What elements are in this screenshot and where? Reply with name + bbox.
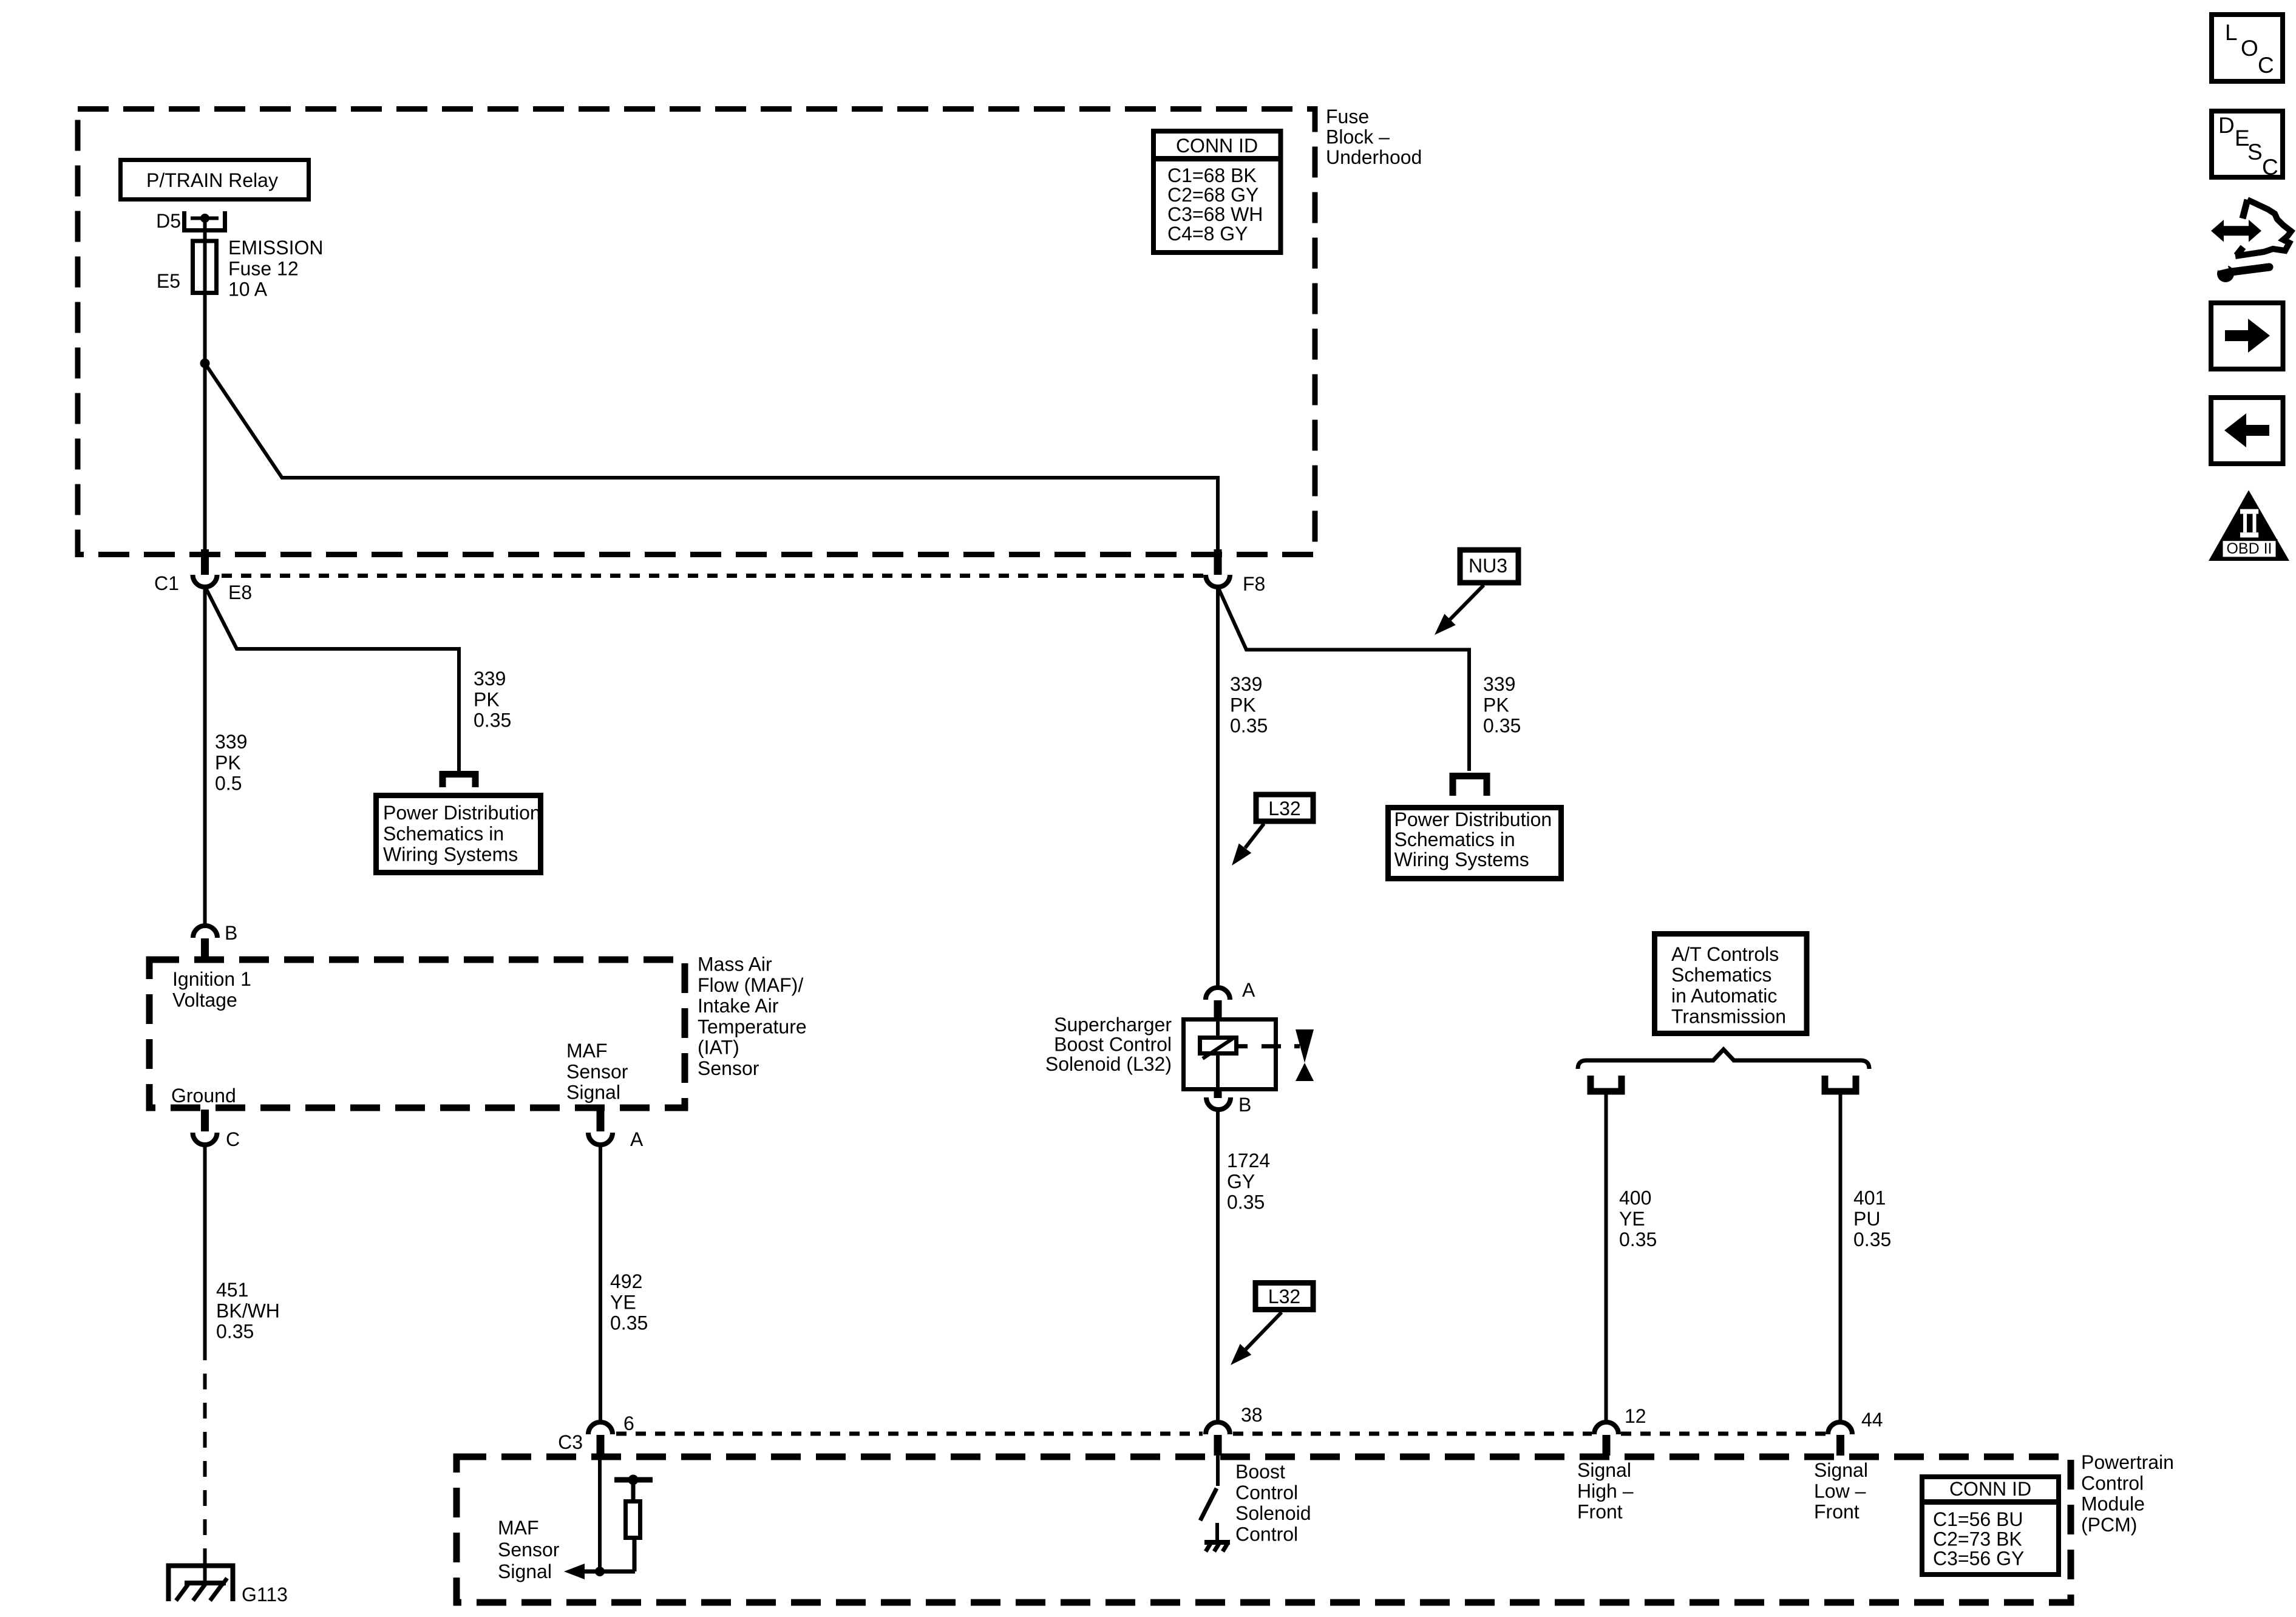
svg-text:Supercharger: Supercharger (1054, 1014, 1172, 1036)
label Signal Low - Front (1814, 1459, 1868, 1523)
L32 option box (upper) (1256, 795, 1313, 821)
wire label 492 YE 0.35 (610, 1270, 648, 1334)
svg-text:Boost Control: Boost Control (1054, 1033, 1172, 1055)
svg-text:C: C (2262, 155, 2278, 180)
svg-text:S: S (2247, 140, 2263, 164)
svg-text:44: 44 (1861, 1409, 1883, 1431)
label A (MAF signal) (630, 1128, 644, 1150)
label 44 (1861, 1409, 1883, 1431)
svg-text:Underhood: Underhood (1326, 146, 1422, 168)
label Fuse Block - Underhood (1326, 106, 1422, 168)
svg-text:38: 38 (1241, 1404, 1263, 1426)
svg-text:400: 400 (1619, 1187, 1651, 1209)
label Ground (171, 1085, 236, 1107)
dotted connector line (fuse block) (222, 574, 1204, 578)
hand and wrench icon (2211, 200, 2291, 282)
svg-text:C1=56 BU: C1=56 BU (1933, 1508, 2023, 1530)
wire fuse to C1 (203, 295, 207, 551)
PCM dashed box (457, 1457, 2071, 1602)
svg-text:E8: E8 (228, 581, 252, 603)
svg-text:L: L (2225, 20, 2238, 45)
A/T Controls reference box (1655, 934, 1807, 1034)
label 6 (623, 1412, 634, 1434)
wire 44 (1839, 1094, 1843, 1422)
svg-text:in Automatic: in Automatic (1671, 985, 1777, 1006)
svg-text:Schematics in: Schematics in (383, 822, 504, 844)
svg-text:B: B (225, 922, 237, 944)
pin label E5 (157, 270, 180, 292)
svg-text:Fuse: Fuse (1326, 106, 1369, 127)
svg-text:A: A (630, 1128, 644, 1150)
label Ignition 1 Voltage (172, 968, 251, 1011)
label Powertrain Control Module (PCM) (2081, 1451, 2174, 1536)
svg-text:Low –: Low – (1814, 1480, 1866, 1502)
back arrow icon box (2211, 398, 2283, 464)
connector A (MAF signal) (588, 1110, 613, 1145)
label 12 (1625, 1405, 1646, 1427)
svg-text:O: O (2241, 36, 2258, 61)
svg-text:YE: YE (610, 1291, 636, 1313)
svg-text:PK: PK (1483, 694, 1509, 716)
svg-text:G113: G113 (242, 1584, 288, 1605)
svg-text:A/T Controls: A/T Controls (1671, 943, 1779, 965)
svg-text:L32: L32 (1268, 798, 1300, 819)
svg-text:B: B (1238, 1094, 1251, 1116)
svg-text:OBD II: OBD II (2226, 540, 2272, 557)
forward arrow icon box (2211, 303, 2283, 369)
svg-text:339: 339 (1230, 673, 1262, 695)
Power Distribution reference box (left) (376, 796, 541, 873)
svg-text:Power Distribution: Power Distribution (383, 802, 541, 824)
connector A (solenoid) (1206, 988, 1230, 1018)
svg-text:0.35: 0.35 (1853, 1229, 1891, 1250)
wire relay to fuse (203, 219, 207, 239)
connector B (solenoid) (1206, 1090, 1231, 1110)
CONN ID table (fuse block) (1151, 131, 1283, 253)
svg-text:E5: E5 (157, 270, 180, 292)
wire E8 branch to power distribution (206, 588, 459, 771)
pin 38 internal switch to ground (1200, 1456, 1218, 1541)
label C (226, 1128, 240, 1150)
svg-text:C1: C1 (154, 572, 179, 594)
svg-text:YE: YE (1619, 1208, 1645, 1230)
label G113 (242, 1584, 288, 1605)
wire label 339 PK 0.35 (F8 wire) (1230, 673, 1268, 737)
svg-text:Solenoid: Solenoid (1235, 1502, 1311, 1524)
L32 arrow (upper) (1232, 824, 1264, 866)
svg-text:Wiring Systems: Wiring Systems (383, 844, 518, 866)
svg-text:A: A (1242, 979, 1255, 1001)
svg-text:0.35: 0.35 (1230, 715, 1268, 737)
svg-text:451: 451 (216, 1279, 248, 1301)
svg-text:C1=68 BK: C1=68 BK (1167, 164, 1257, 186)
svg-text:CONN ID: CONN ID (1949, 1478, 2031, 1500)
svg-text:Wiring Systems: Wiring Systems (1394, 849, 1529, 870)
LOC icon box (2212, 15, 2283, 81)
svg-text:D: D (2218, 113, 2235, 138)
svg-text:D5: D5 (156, 210, 181, 232)
svg-text:0.35: 0.35 (474, 710, 511, 731)
svg-text:Signal: Signal (1577, 1459, 1631, 1481)
off-page bracket (A/T left) (1591, 1076, 1622, 1091)
svg-text:Signal: Signal (1814, 1459, 1868, 1481)
svg-text:Module: Module (2081, 1493, 2145, 1515)
L32 option box (lower) (1255, 1283, 1313, 1310)
label C1 (154, 572, 179, 594)
wire F8 branch to power distribution right (1218, 588, 1469, 771)
wire B to 38 (1216, 1110, 1220, 1422)
svg-text:Mass Air: Mass Air (698, 954, 772, 975)
svg-text:CONN ID: CONN ID (1176, 135, 1258, 157)
valve symbol (1296, 1029, 1314, 1081)
svg-text:Powertrain: Powertrain (2081, 1451, 2174, 1473)
off-page bracket (power distribution right) (1453, 776, 1487, 796)
wire C ground dashed (203, 1344, 207, 1550)
wire label 401 PU 0.35 (1853, 1187, 1891, 1251)
label Signal High - Front (1577, 1459, 1634, 1523)
svg-text:Schematics: Schematics (1671, 964, 1771, 986)
connector pin 12 (1594, 1422, 1618, 1456)
svg-text:0.35: 0.35 (1483, 715, 1521, 737)
svg-text:401: 401 (1853, 1187, 1886, 1209)
svg-text:Sensor: Sensor (498, 1539, 560, 1561)
label 38 (1241, 1404, 1263, 1426)
connector C1 (193, 549, 217, 587)
svg-text:F8: F8 (1243, 573, 1265, 595)
svg-text:0.5: 0.5 (215, 773, 242, 795)
off-page bracket (A/T right) (1825, 1076, 1856, 1091)
svg-text:1724: 1724 (1227, 1150, 1270, 1171)
svg-text:Solenoid (L32): Solenoid (L32) (1045, 1053, 1172, 1075)
connector B (ignition box) (193, 926, 217, 959)
svg-text:Intake Air: Intake Air (698, 995, 779, 1017)
supercharger boost control solenoid L32 (1184, 1017, 1300, 1091)
wire junction to F8 (205, 364, 1218, 552)
svg-text:MAF: MAF (566, 1040, 608, 1062)
svg-text:0.35: 0.35 (1619, 1229, 1657, 1250)
svg-text:339: 339 (1483, 673, 1515, 695)
svg-text:(PCM): (PCM) (2081, 1514, 2137, 1536)
wire A to pin 6 (599, 1144, 602, 1422)
label B (ignition box) (225, 922, 237, 944)
NU3 arrow (1435, 585, 1484, 635)
svg-text:P/TRAIN Relay: P/TRAIN Relay (146, 169, 278, 191)
wire label 451 BK/WH 0.35 (216, 1279, 280, 1343)
svg-text:Fuse 12: Fuse 12 (228, 257, 299, 279)
OBD II icon (2209, 490, 2289, 561)
wire label 339 PK 0.5 (215, 731, 247, 795)
wire C1 to B (203, 586, 207, 925)
svg-text:C2=68 GY: C2=68 GY (1167, 184, 1258, 206)
svg-text:Schematics in: Schematics in (1394, 829, 1515, 850)
label A (solenoid) (1242, 979, 1255, 1001)
label MAF Sensor Signal (PCM) (498, 1517, 560, 1582)
svg-text:PK: PK (1230, 694, 1256, 716)
svg-text:C: C (226, 1128, 240, 1150)
label F8 (1243, 573, 1265, 595)
relay contact symbol (185, 211, 225, 231)
connector C3 pin 6 (588, 1422, 613, 1456)
svg-text:0.35: 0.35 (216, 1321, 254, 1343)
fuse block underhood dashed box (78, 109, 1315, 555)
svg-text:6: 6 (623, 1412, 634, 1434)
MAF/IAT sensor dashed box (149, 960, 685, 1108)
svg-text:(IAT): (IAT) (698, 1037, 739, 1059)
label B (solenoid) (1238, 1094, 1251, 1116)
connector C (MAF ground) (193, 1110, 217, 1145)
label Supercharger Boost Control Solenoid (L32) (1045, 1014, 1172, 1075)
svg-text:C3=68 WH: C3=68 WH (1167, 203, 1263, 225)
PCM dotted connector line (616, 1432, 1826, 1436)
resistor (MAF internal) (614, 1475, 653, 1572)
ground G113 (169, 1566, 233, 1602)
wire label 400 YE 0.35 (1619, 1187, 1657, 1251)
fuse EMISSION Fuse 12 10 A (193, 239, 217, 296)
svg-text:Power Distribution: Power Distribution (1394, 808, 1552, 830)
svg-text:Transmission: Transmission (1671, 1006, 1786, 1028)
Power Distribution reference box (right) (1388, 808, 1561, 879)
svg-text:0.35: 0.35 (610, 1312, 648, 1334)
wire C ground solid upper (203, 1144, 207, 1344)
svg-text:Front: Front (1814, 1501, 1860, 1523)
svg-text:12: 12 (1625, 1405, 1646, 1427)
svg-text:Ignition 1: Ignition 1 (172, 968, 251, 990)
svg-text:C4=8 GY: C4=8 GY (1167, 223, 1248, 245)
svg-text:Signal: Signal (566, 1082, 620, 1103)
svg-text:GY: GY (1227, 1170, 1255, 1192)
NU3 option box (1460, 550, 1518, 583)
L32 arrow (lower) (1231, 1312, 1282, 1365)
svg-text:Ground: Ground (171, 1085, 236, 1107)
label Boost Control Solenoid Control (1235, 1461, 1311, 1545)
label E8 (228, 581, 252, 603)
svg-text:NU3: NU3 (1469, 555, 1507, 577)
junction dot (200, 359, 210, 368)
svg-text:Control: Control (2081, 1472, 2144, 1494)
label C3 (558, 1431, 583, 1453)
svg-text:Sensor: Sensor (698, 1057, 759, 1079)
svg-text:Voltage: Voltage (172, 989, 237, 1011)
svg-text:EMISSION: EMISSION (228, 237, 323, 259)
svg-text:Sensor: Sensor (566, 1060, 628, 1082)
off-page bracket (power distribution left) (443, 775, 475, 788)
wire F8 to A (1216, 586, 1220, 987)
P/TRAIN Relay label box (121, 160, 309, 200)
svg-text:Control: Control (1235, 1482, 1298, 1503)
svg-text:Flow (MAF)/: Flow (MAF)/ (698, 974, 803, 996)
svg-text:Boost: Boost (1235, 1461, 1285, 1483)
wire 12 (1605, 1094, 1608, 1422)
brace (1578, 1049, 1869, 1069)
svg-text:Block –: Block – (1326, 126, 1390, 148)
svg-text:High –: High – (1577, 1480, 1634, 1502)
svg-text:339: 339 (215, 731, 247, 753)
svg-text:PK: PK (215, 751, 241, 773)
svg-text:Temperature: Temperature (698, 1015, 807, 1037)
wire C ground solid lower (203, 1550, 207, 1583)
wire label 339 PK 0.35 (NU3 branch) (1483, 673, 1521, 737)
svg-text:Control: Control (1235, 1523, 1298, 1545)
svg-text:PU: PU (1853, 1208, 1880, 1230)
PCM MAF sensor signal circuit (564, 1456, 635, 1579)
svg-text:10 A: 10 A (228, 279, 268, 300)
svg-text:C: C (2258, 53, 2274, 78)
CONN ID table (PCM) (1920, 1477, 2061, 1575)
svg-text:339: 339 (474, 668, 506, 690)
pin label D5 (156, 210, 181, 232)
DESC icon box (2212, 111, 2283, 180)
wire label 1724 GY 0.35 (1227, 1150, 1270, 1213)
svg-text:C3=56 GY: C3=56 GY (1933, 1548, 2024, 1570)
fuse value label EMISSION Fuse 12 10 A (228, 237, 323, 300)
svg-text:492: 492 (610, 1270, 642, 1292)
svg-text:PK: PK (474, 688, 500, 710)
svg-text:Signal: Signal (498, 1561, 552, 1582)
svg-text:L32: L32 (1268, 1286, 1300, 1307)
svg-text:BK/WH: BK/WH (216, 1300, 280, 1321)
svg-text:C3: C3 (558, 1431, 583, 1453)
svg-text:Front: Front (1577, 1501, 1623, 1523)
label MAF Sensor Signal (sensor) (566, 1040, 628, 1103)
svg-text:0.35: 0.35 (1227, 1192, 1265, 1213)
connector pin 38 (1206, 1422, 1230, 1456)
connector F8 (1206, 549, 1230, 587)
ground (PCM internal) (1204, 1542, 1230, 1551)
connector pin 44 (1828, 1422, 1852, 1456)
wire label 339 PK 0.35 (E8 branch) (474, 668, 511, 731)
svg-text:C2=73 BK: C2=73 BK (1933, 1528, 2022, 1550)
label Mass Air Flow (MAF)/ Intake Air Temperature (IAT) Sensor (698, 954, 807, 1080)
svg-text:MAF: MAF (498, 1517, 539, 1539)
